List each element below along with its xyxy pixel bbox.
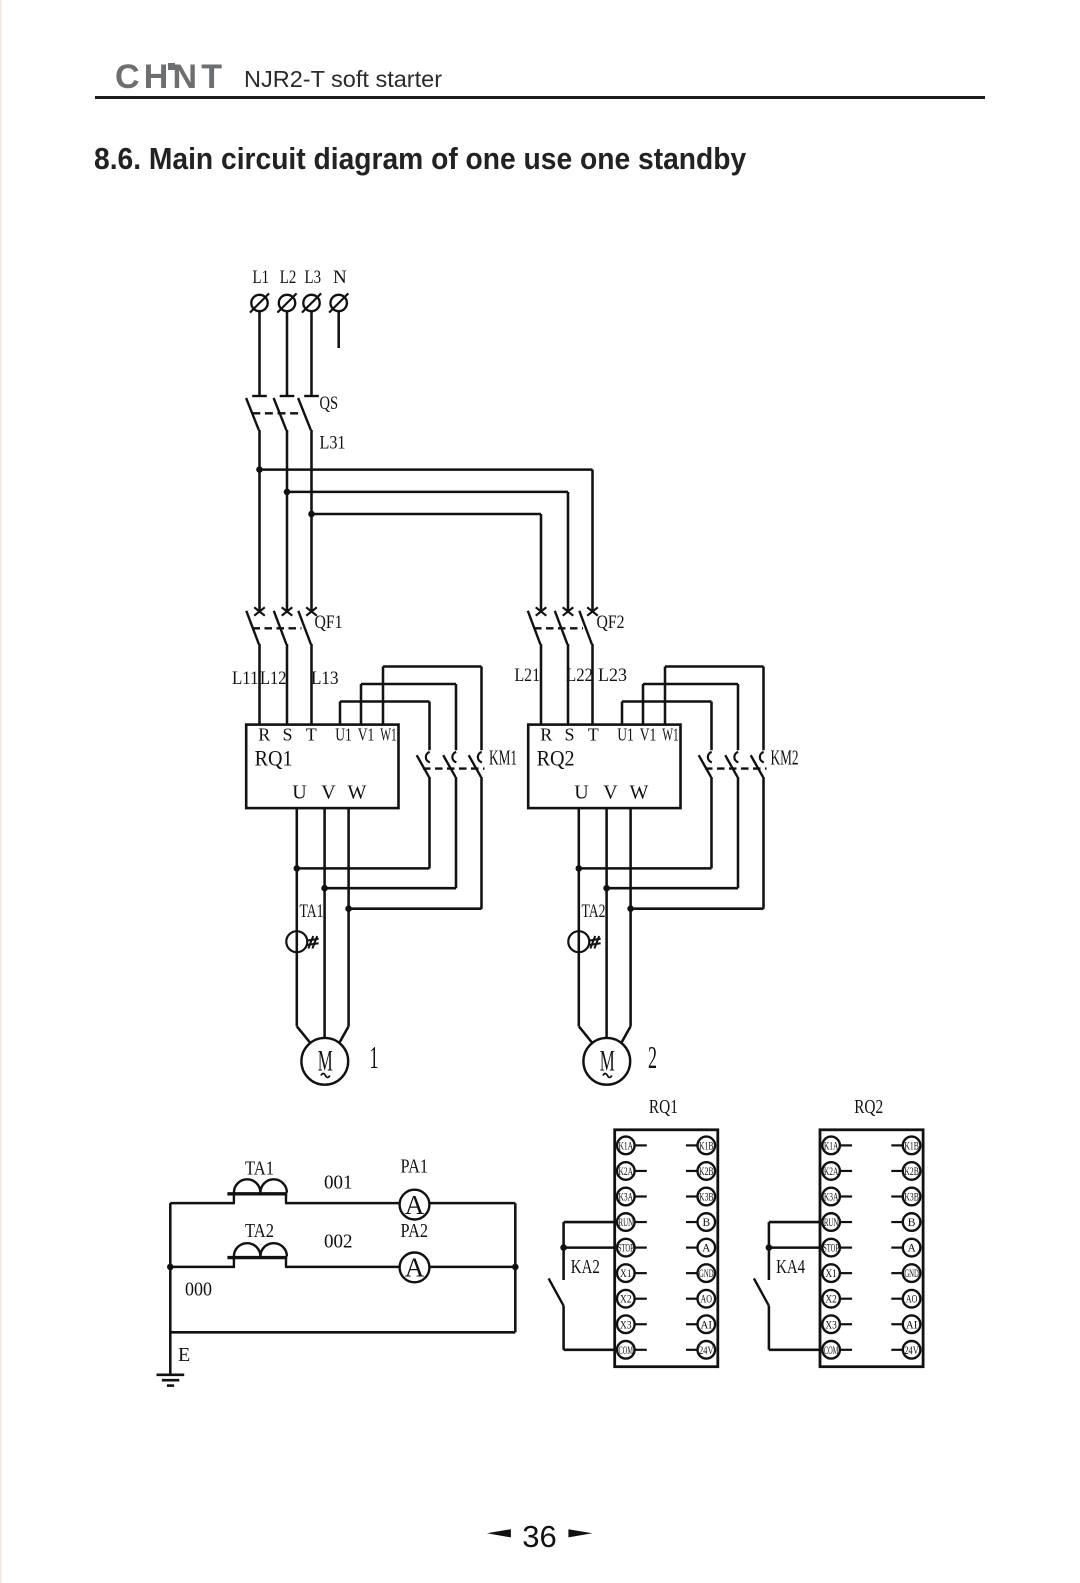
svg-text:S: S (564, 725, 574, 745)
svg-text:GND: GND (699, 1268, 714, 1280)
svg-text:U: U (292, 782, 307, 804)
svg-text:U1: U1 (617, 725, 634, 745)
svg-text:36: 36 (522, 1519, 556, 1554)
svg-text:L23: L23 (598, 665, 627, 686)
svg-text:X1: X1 (620, 1268, 632, 1280)
svg-text:STOP: STOP (823, 1243, 839, 1255)
svg-text:V: V (321, 782, 336, 804)
svg-text:K3B: K3B (904, 1192, 919, 1204)
svg-text:COM: COM (824, 1345, 839, 1357)
svg-text:PA2: PA2 (401, 1220, 429, 1242)
svg-text:STOP: STOP (618, 1243, 634, 1255)
svg-text:W: W (630, 782, 649, 804)
svg-text:A: A (405, 1253, 425, 1283)
svg-text:K3A: K3A (824, 1192, 839, 1204)
svg-text:K3B: K3B (699, 1192, 714, 1204)
svg-text:T: T (588, 725, 599, 745)
svg-text:001: 001 (324, 1172, 353, 1194)
svg-text:RQ1: RQ1 (255, 746, 293, 771)
svg-text:K1A: K1A (619, 1140, 634, 1152)
svg-text:A: A (405, 1190, 425, 1220)
svg-text:A: A (907, 1243, 916, 1255)
svg-text:M: M (318, 1045, 333, 1078)
svg-text:N: N (333, 267, 347, 288)
svg-text:W1: W1 (380, 725, 397, 745)
svg-text:R: R (258, 725, 270, 745)
svg-text:L11: L11 (232, 668, 259, 689)
svg-text:U1: U1 (335, 725, 352, 745)
svg-text:K2A: K2A (619, 1166, 634, 1178)
svg-text:TA2: TA2 (582, 901, 606, 922)
svg-text:S: S (282, 725, 292, 745)
svg-text:COM: COM (619, 1345, 634, 1357)
svg-text:E: E (178, 1344, 190, 1366)
svg-text:002: 002 (324, 1231, 353, 1253)
svg-text:R: R (540, 725, 552, 745)
svg-text:KA4: KA4 (776, 1256, 805, 1278)
svg-text:B: B (908, 1217, 916, 1229)
svg-text:L3: L3 (305, 267, 322, 288)
svg-text:L22: L22 (566, 665, 593, 686)
svg-text:TA1: TA1 (245, 1158, 274, 1180)
svg-text:K2B: K2B (904, 1166, 919, 1178)
svg-text:L31: L31 (320, 433, 346, 454)
svg-text:U: U (574, 782, 589, 804)
svg-text:L13: L13 (311, 668, 339, 689)
svg-text:000: 000 (185, 1279, 212, 1301)
svg-text:B: B (702, 1217, 710, 1229)
svg-text:QF1: QF1 (315, 612, 343, 633)
svg-text:X2: X2 (825, 1294, 837, 1306)
svg-text:AO: AO (906, 1294, 918, 1306)
svg-text:PA1: PA1 (401, 1156, 429, 1178)
svg-text:QS: QS (320, 393, 339, 414)
svg-text:K2A: K2A (824, 1166, 839, 1178)
svg-text:V: V (603, 782, 618, 804)
svg-text:1: 1 (370, 1039, 379, 1075)
svg-text:RQ2: RQ2 (537, 746, 575, 771)
svg-text:X1: X1 (825, 1268, 837, 1280)
svg-text:RQ2: RQ2 (854, 1096, 883, 1118)
svg-text:AI: AI (906, 1319, 918, 1331)
svg-text:K3A: K3A (619, 1192, 634, 1204)
svg-text:X3: X3 (620, 1319, 632, 1331)
svg-text:X2: X2 (620, 1294, 632, 1306)
svg-text:K2B: K2B (699, 1166, 714, 1178)
svg-text:TA1: TA1 (300, 901, 324, 922)
svg-text:X3: X3 (825, 1319, 837, 1331)
svg-text:L12: L12 (260, 668, 287, 689)
svg-text:24V: 24V (699, 1345, 714, 1357)
svg-text:V1: V1 (640, 725, 657, 745)
svg-text:V1: V1 (358, 725, 375, 745)
svg-text:24V: 24V (904, 1345, 919, 1357)
svg-text:TA2: TA2 (245, 1220, 274, 1242)
svg-text:AI: AI (701, 1319, 713, 1331)
svg-text:2: 2 (648, 1039, 657, 1075)
svg-text:L21: L21 (515, 665, 541, 686)
svg-text:KA2: KA2 (571, 1256, 600, 1278)
svg-text:GND: GND (904, 1268, 919, 1280)
svg-text:K1B: K1B (699, 1140, 714, 1152)
svg-text:QF2: QF2 (597, 612, 625, 633)
svg-text:RQ1: RQ1 (649, 1096, 678, 1118)
svg-text:RUN: RUN (824, 1217, 839, 1229)
svg-text:W: W (348, 782, 367, 804)
svg-text:W1: W1 (662, 725, 679, 745)
svg-text:K1A: K1A (824, 1140, 839, 1152)
svg-text:K1B: K1B (904, 1140, 919, 1152)
svg-text:KM2: KM2 (771, 746, 799, 770)
svg-text:A: A (702, 1243, 711, 1255)
svg-text:AO: AO (701, 1294, 713, 1306)
svg-text:L1: L1 (253, 267, 270, 288)
svg-text:RUN: RUN (619, 1217, 634, 1229)
svg-text:KM1: KM1 (489, 746, 517, 770)
svg-text:T: T (306, 725, 317, 745)
svg-text:M: M (600, 1045, 615, 1078)
svg-text:L2: L2 (280, 267, 297, 288)
